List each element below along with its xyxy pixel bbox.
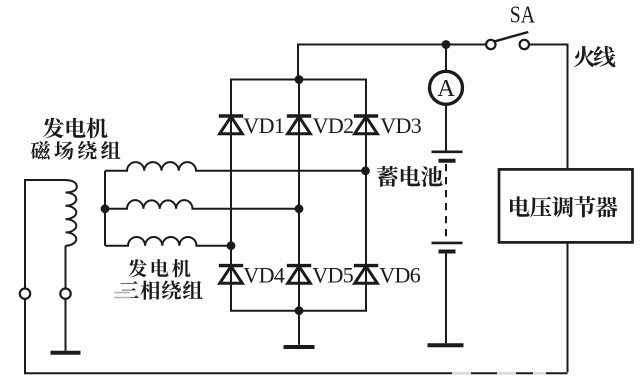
svg-text:VD5: VD5	[312, 262, 354, 287]
svg-text:VD2: VD2	[313, 113, 354, 138]
svg-text:SA: SA	[510, 2, 535, 29]
svg-text:A: A	[437, 75, 455, 102]
svg-text:VD6: VD6	[379, 262, 421, 287]
svg-text:VD1: VD1	[243, 113, 284, 138]
svg-text:VD3: VD3	[380, 113, 422, 138]
svg-text:VD4: VD4	[243, 262, 285, 287]
